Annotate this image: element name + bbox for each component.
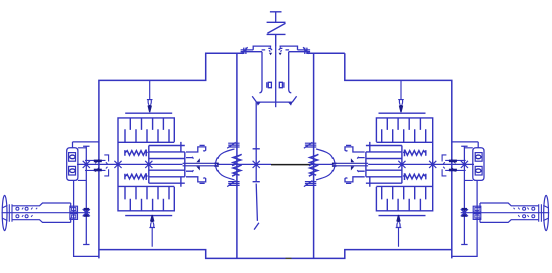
- wire axle centreline right: [461, 212, 550, 214]
- box A1 brake pack right: [366, 113, 433, 215]
- node X counter-axle right: [461, 209, 468, 216]
- bolt circle r3 upper: [532, 207, 535, 210]
- gear Z7 hub dash upper right: [462, 208, 467, 211]
- gear Z5 tooth-dash lower right: [449, 169, 457, 172]
- gear Z5 tooth-dash upper right: [449, 160, 457, 163]
- arrow F2 apply head: [150, 215, 154, 222]
- bearing B8 inner: [72, 215, 76, 218]
- wire input shaft: [275, 46, 277, 107]
- bracket K1 flag lower: [196, 167, 199, 171]
- clutch C1 pin head: [269, 53, 272, 56]
- bearing B9 axle upper right: [473, 206, 481, 212]
- bracket K1 drum: [186, 145, 206, 183]
- wire column rails right: [464, 148, 472, 181]
- bearing B8 axle lower: [70, 214, 78, 220]
- wire housing outline: [99, 53, 452, 258]
- bearing B3 upper: [69, 153, 76, 162]
- node X box-centre: [145, 161, 152, 168]
- joint U2 zigzag: [309, 154, 319, 176]
- bearing B6 ball: [476, 169, 481, 173]
- bolt circle r1 upper: [16, 207, 19, 210]
- gear Z3 bevel pinion shaft: [253, 102, 260, 230]
- wire column rails: [78, 148, 86, 181]
- bolt circle r2 lower: [25, 215, 28, 218]
- wheel W1 hub bars: [2, 204, 12, 222]
- spring R1 return: [125, 150, 147, 157]
- node X box-left-edge dot: [116, 163, 119, 166]
- bearing B5 ball: [476, 155, 481, 159]
- gear Z7 hub dash lower right: [462, 214, 467, 217]
- node X counter-axis right: [461, 161, 468, 168]
- shaft S2 hub right: [334, 163, 368, 166]
- bolt circle r4 lower: [523, 215, 526, 218]
- arrow F1 apply head: [148, 105, 152, 112]
- joint U2 yoke dash upper: [332, 163, 337, 165]
- joint U2 yoke dash lower: [332, 165, 337, 167]
- wire gear-unit frame right: [452, 180, 477, 256]
- gear Z6 hub dash lower: [84, 214, 89, 217]
- node X box-right-edge dot: [431, 163, 434, 166]
- clutch C1 pin head right: [279, 53, 282, 56]
- gear Z2 arrow right: [288, 102, 292, 106]
- node X box-left-edge: [114, 161, 121, 168]
- gear Z4 mesh lines: [85, 155, 109, 176]
- joint U2 spline: [304, 142, 335, 186]
- gear Z5 ticks right: [452, 159, 456, 171]
- bearing B10 inner: [475, 215, 479, 218]
- housing gear-unit rails right: [452, 142, 484, 181]
- bearing B1 support: [259, 52, 271, 93]
- bolt circle r1 lower: [16, 215, 19, 218]
- node X counter-axis dot: [85, 163, 88, 166]
- node X box-centre-right: [398, 161, 405, 168]
- wire main axis black segment: [271, 164, 311, 166]
- shaft S1 hub: [183, 163, 217, 166]
- joint U1 zigzag: [232, 154, 242, 176]
- clutch C1 friction pair: [241, 46, 272, 54]
- gear Z4 tooth-dash lower: [94, 169, 102, 172]
- bearing B6 lower right: [475, 166, 482, 175]
- bearing B2 support right: [279, 52, 291, 93]
- bolt circle r2 upper: [25, 207, 28, 210]
- arrow F4 apply head: [396, 215, 400, 222]
- bearing B7 inner: [72, 208, 76, 211]
- clutch C1 friction pair right: [279, 46, 310, 54]
- gear Z6 hub dash upper: [84, 208, 89, 211]
- gear Z2 arrow left: [256, 102, 260, 106]
- shaft S3 counter: [83, 146, 89, 244]
- node X counter-axis right dot: [463, 163, 466, 166]
- node X counter-axis: [83, 161, 90, 168]
- wire bottom dark mark: [286, 257, 292, 259]
- spring R1 return right: [403, 150, 426, 157]
- bracket K2 flag lower: [351, 167, 354, 171]
- gear Z4 ticks: [95, 159, 99, 171]
- spring R2 return right: [403, 173, 426, 180]
- wire gear-unit frame: [74, 180, 99, 256]
- shaft S4 counter right: [461, 146, 467, 244]
- bracket K2 flag upper: [351, 158, 354, 162]
- node X box-right-edge: [429, 161, 436, 168]
- spring R2 return: [125, 173, 147, 180]
- shaft S5 axle outline: [12, 203, 71, 222]
- node X counter-axle right dot: [463, 211, 466, 214]
- arrow F3 apply head: [399, 105, 403, 112]
- bearing B9 inner: [475, 208, 479, 211]
- wheel W2 hub bars: [539, 204, 549, 222]
- housing gear-unit rails: [67, 142, 99, 181]
- bolt circle r3 lower: [532, 215, 535, 218]
- node X counter-axle: [83, 209, 90, 216]
- bearing B4 lower: [69, 166, 76, 175]
- wheel W1 disc: [2, 195, 7, 230]
- gear Z2 bevel crown: [252, 96, 296, 102]
- bolt circle r4 upper: [523, 207, 526, 210]
- node dot pinion-axis: [255, 163, 258, 166]
- node X counter-axle dot: [85, 211, 88, 214]
- arrow F4 apply: [396, 222, 402, 246]
- arrow F3 apply: [398, 80, 404, 104]
- bracket K2 drum right: [345, 145, 365, 183]
- gear Z4 tooth-dash upper: [94, 160, 102, 163]
- bolt ticks: [22, 208, 37, 217]
- bracket K1 flag upper: [196, 158, 199, 162]
- bearing B4 ball: [70, 169, 75, 173]
- wheel W2 disc: [544, 195, 549, 230]
- node input shaft top: [270, 12, 282, 22]
- bolt ticks right: [514, 208, 529, 217]
- gear Z5 mesh lines right: [442, 155, 466, 176]
- wire axle centreline: [2, 212, 91, 214]
- joint U1 yoke dash lower: [214, 165, 219, 167]
- bearing B3 ball: [70, 155, 75, 159]
- wire main axis right: [311, 163, 475, 165]
- node X box-centre-right dot: [400, 163, 403, 166]
- joint U1 spline: [216, 142, 240, 186]
- joint U1 yoke dash upper: [214, 163, 219, 165]
- bearing B10 axle lower right: [473, 214, 481, 220]
- arrow F2 apply: [149, 222, 155, 246]
- node X pinion-axis: [253, 161, 260, 168]
- node X box-centre dot: [147, 163, 150, 166]
- bearing B5 upper right: [475, 153, 482, 162]
- box A1 brake pack: [118, 113, 185, 215]
- arrow F1 apply: [147, 80, 153, 104]
- wire main axis: [77, 163, 271, 165]
- shaft S6 axle outline right: [480, 203, 539, 222]
- bearing B7 axle upper: [70, 206, 78, 212]
- coupling Z1 elastic: [267, 22, 286, 46]
